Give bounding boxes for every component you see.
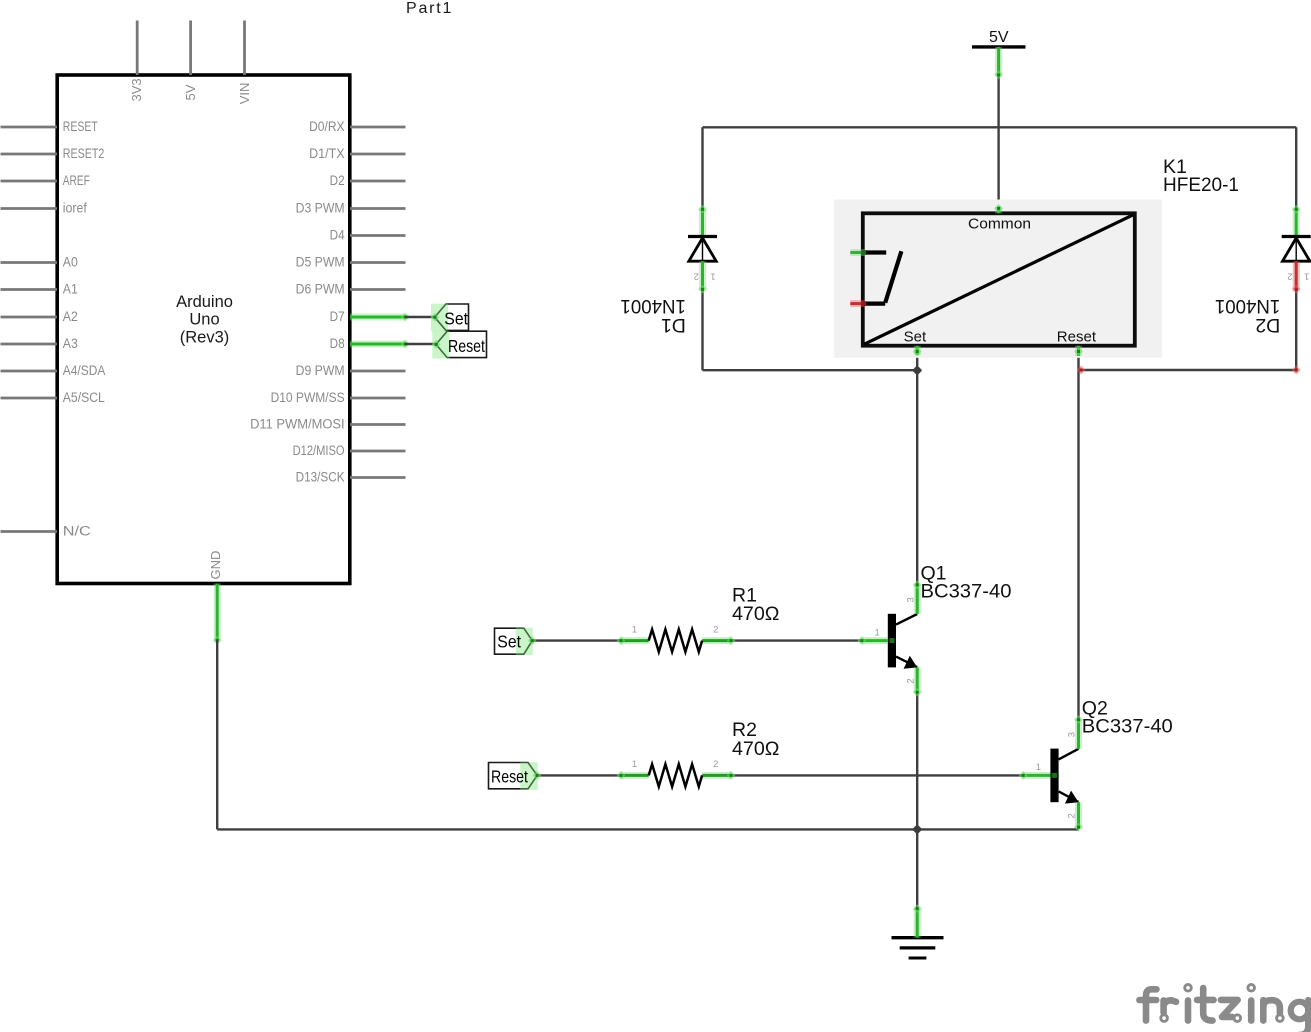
- svg-text:2: 2: [713, 759, 718, 770]
- svg-text:(Rev3): (Rev3): [180, 328, 230, 346]
- svg-text:Set: Set: [497, 632, 521, 652]
- svg-text:1: 1: [710, 271, 715, 282]
- svg-text:A2: A2: [63, 309, 78, 324]
- svg-text:Reset: Reset: [1057, 329, 1097, 346]
- svg-text:1: 1: [632, 759, 637, 770]
- svg-text:Set: Set: [904, 329, 927, 346]
- svg-text:A1: A1: [63, 282, 78, 297]
- svg-text:A4/SDA: A4/SDA: [63, 363, 106, 378]
- svg-text:AREF: AREF: [63, 173, 90, 188]
- svg-text:2: 2: [1287, 271, 1292, 282]
- svg-text:Reset: Reset: [491, 767, 528, 787]
- svg-text:5V: 5V: [183, 84, 198, 100]
- svg-text:1N4001: 1N4001: [620, 295, 686, 317]
- svg-text:2: 2: [905, 678, 916, 683]
- svg-text:2: 2: [713, 624, 718, 635]
- svg-text:D13/SCK: D13/SCK: [296, 470, 345, 485]
- svg-text:D1/TX: D1/TX: [309, 146, 345, 161]
- svg-text:VIN: VIN: [237, 83, 252, 105]
- svg-text:D0/RX: D0/RX: [309, 119, 345, 134]
- svg-text:Common: Common: [968, 216, 1031, 233]
- svg-text:BC337-40: BC337-40: [921, 581, 1012, 603]
- svg-text:1: 1: [632, 624, 637, 635]
- svg-text:470Ω: 470Ω: [732, 738, 780, 760]
- svg-text:HFE20-1: HFE20-1: [1163, 174, 1239, 196]
- svg-text:D10 PWM/SS: D10 PWM/SS: [271, 390, 345, 405]
- svg-text:A3: A3: [63, 336, 78, 351]
- svg-text:ioref: ioref: [63, 201, 87, 216]
- svg-text:1: 1: [1304, 271, 1309, 282]
- svg-text:D7: D7: [330, 309, 345, 324]
- svg-text:1N4001: 1N4001: [1215, 295, 1281, 317]
- svg-text:Uno: Uno: [189, 311, 219, 329]
- svg-text:BC337-40: BC337-40: [1082, 716, 1173, 738]
- svg-text:D6 PWM: D6 PWM: [296, 282, 345, 297]
- svg-text:2: 2: [694, 271, 699, 282]
- svg-text:D8: D8: [330, 336, 345, 351]
- svg-text:D9 PWM: D9 PWM: [296, 363, 345, 378]
- svg-text:1: 1: [1036, 762, 1041, 773]
- svg-text:D5 PWM: D5 PWM: [296, 255, 345, 270]
- svg-text:D3 PWM: D3 PWM: [296, 201, 345, 216]
- svg-text:GND: GND: [208, 551, 223, 580]
- svg-text:3: 3: [905, 597, 916, 602]
- svg-text:Set: Set: [444, 309, 468, 329]
- svg-text:A5/SCL: A5/SCL: [63, 390, 105, 405]
- svg-text:A0: A0: [63, 255, 78, 270]
- svg-text:RESET: RESET: [63, 119, 98, 134]
- svg-text:2: 2: [1067, 813, 1078, 818]
- svg-text:D12/MISO: D12/MISO: [293, 443, 345, 458]
- svg-text:1: 1: [874, 627, 879, 638]
- svg-text:3: 3: [1067, 732, 1078, 737]
- svg-text:Reset: Reset: [448, 336, 485, 356]
- svg-text:5V: 5V: [989, 29, 1009, 46]
- svg-text:Arduino: Arduino: [176, 293, 233, 311]
- svg-text:RESET2: RESET2: [63, 146, 105, 161]
- svg-text:470Ω: 470Ω: [732, 603, 780, 625]
- svg-text:D11 PWM/MOSI: D11 PWM/MOSI: [250, 417, 345, 432]
- svg-text:Part1: Part1: [406, 0, 453, 17]
- svg-text:N/C: N/C: [63, 524, 91, 539]
- svg-text:D2: D2: [330, 173, 345, 188]
- svg-text:D4: D4: [330, 228, 345, 243]
- svg-text:3V3: 3V3: [129, 78, 144, 101]
